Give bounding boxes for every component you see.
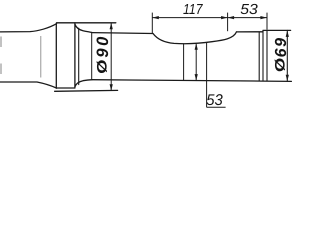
neck aux line xyxy=(183,43,185,80)
dim line Ø90 xyxy=(110,23,112,91)
bottom taper curve xyxy=(75,80,92,87)
joint vertical 3 xyxy=(266,31,268,82)
text underline 53 bottom xyxy=(207,106,226,108)
arrow 53 left xyxy=(228,16,235,19)
groove curve xyxy=(153,32,237,44)
top edge right of groove xyxy=(237,31,264,33)
svg-text:117: 117 xyxy=(183,2,203,18)
arrow neck up xyxy=(195,43,198,50)
right face / dim line Ø69 xyxy=(286,30,288,81)
middle top edge xyxy=(92,32,153,35)
arrow Ø90 down xyxy=(110,84,113,91)
shaft top edge xyxy=(0,24,57,32)
top taper curve xyxy=(75,24,92,32)
arrow 117 left xyxy=(152,16,159,19)
collar face chamfer line xyxy=(78,28,80,84)
left break line dash upper xyxy=(0,37,2,48)
bottom edge middle and right with stub xyxy=(92,80,291,82)
dim 117 extension line left xyxy=(151,13,153,33)
dim line 53 top xyxy=(228,17,267,19)
left break line dash lower xyxy=(0,64,2,75)
collar left tangent line xyxy=(55,24,57,89)
joint vertical 2 xyxy=(262,31,264,81)
arrow 117 right xyxy=(221,16,228,19)
arrow Ø69 up xyxy=(286,30,289,37)
arrow neck down xyxy=(195,74,198,81)
shaft taper tangent line xyxy=(40,36,42,78)
right section top edge with stub xyxy=(263,29,291,31)
middle cylinder tangent line xyxy=(91,33,93,80)
arrow 53 right xyxy=(260,16,267,19)
svg-text:53: 53 xyxy=(206,92,223,109)
shared extension line xyxy=(227,13,229,32)
collar top edge with extension xyxy=(57,22,116,24)
collar bottom edge xyxy=(56,87,75,89)
svg-text:69: 69 xyxy=(273,36,290,57)
svg-text:53: 53 xyxy=(240,2,257,18)
shaft bottom edge xyxy=(0,82,57,88)
svg-text:90: 90 xyxy=(94,34,112,58)
collar bottom extension line xyxy=(55,89,118,92)
dim line 117 xyxy=(152,17,227,19)
joint vertical 1 xyxy=(258,32,260,81)
arrow Ø69 down xyxy=(286,75,289,82)
arrow Ø90 up xyxy=(110,23,113,30)
svg-text:Ø: Ø xyxy=(273,58,288,72)
leader line to 53 bottom xyxy=(206,42,208,107)
dim 53 extension line right xyxy=(266,13,268,30)
collar right face line xyxy=(74,23,76,88)
svg-text:Ø: Ø xyxy=(95,59,110,73)
neck dim line xyxy=(195,43,197,80)
